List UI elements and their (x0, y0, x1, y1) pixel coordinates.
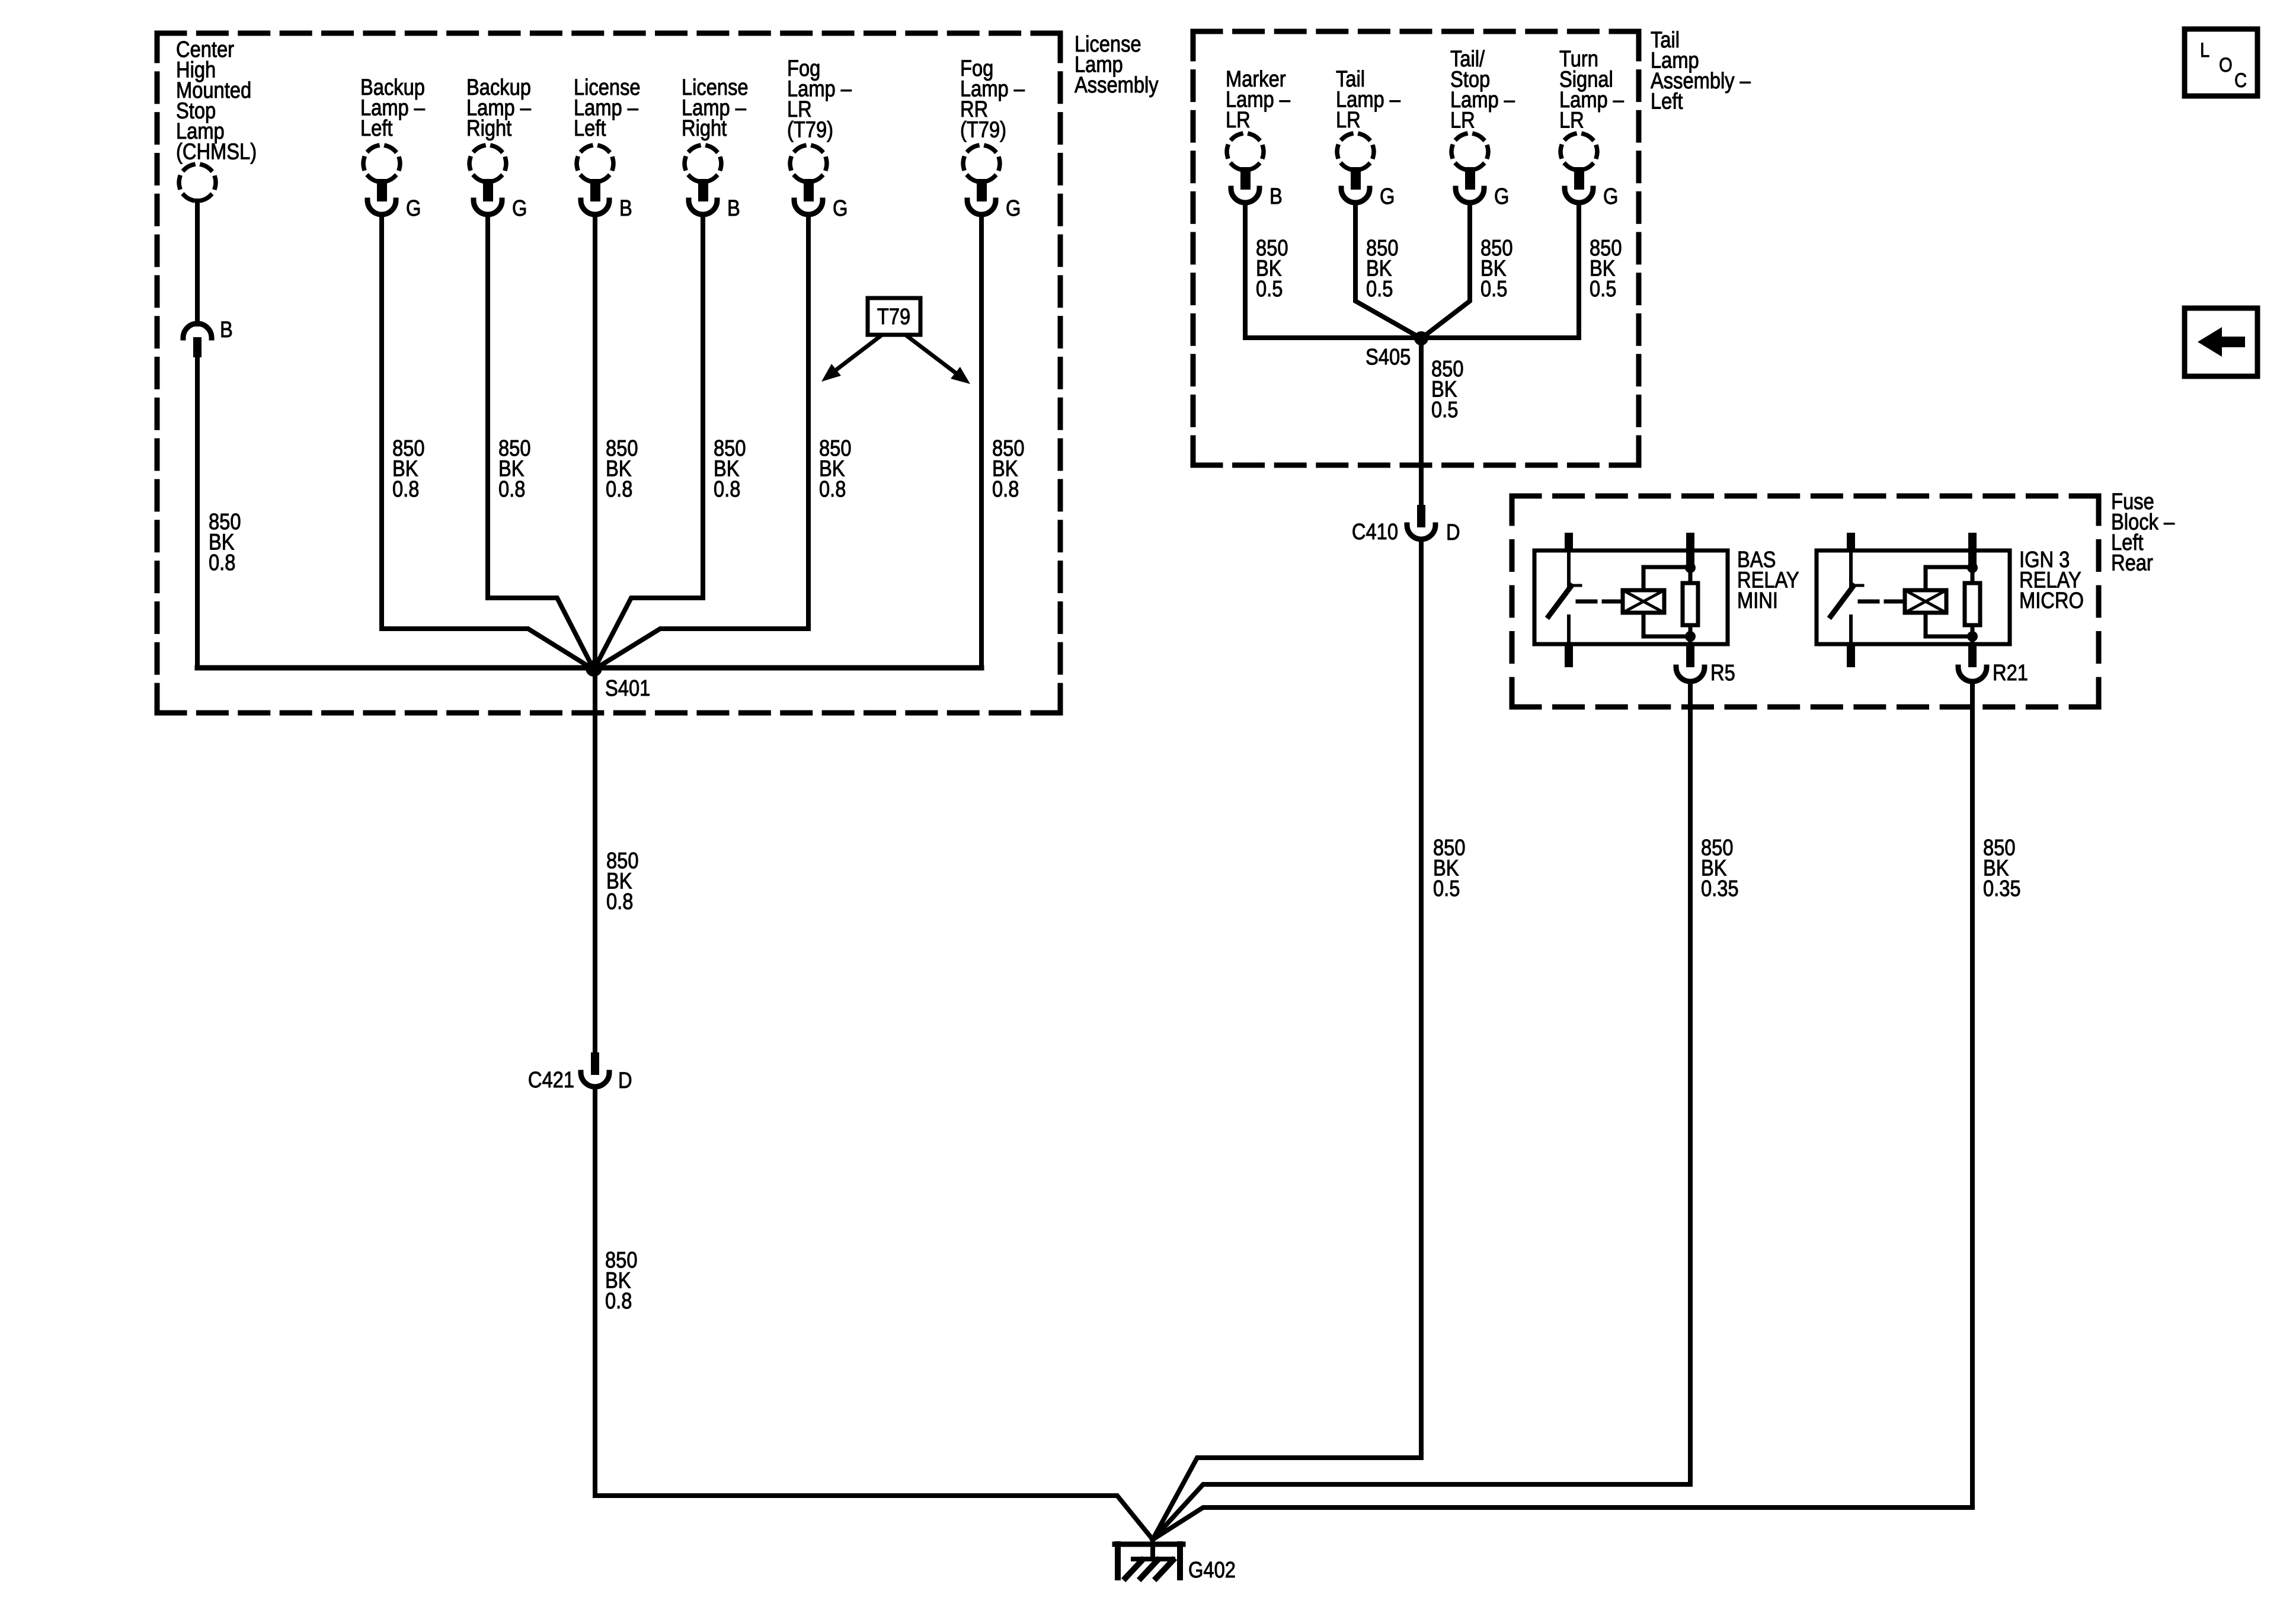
Tail Lamp Assembly dashed box (1193, 31, 1639, 465)
svg-text:B: B (1269, 184, 1283, 209)
svg-text:O: O (2219, 53, 2233, 76)
BAS RELAY MINI resistor (1683, 567, 1698, 644)
BAS RELAY MINI bottom-right pin (1686, 644, 1694, 667)
ground G402 symbol (1115, 1539, 1183, 1578)
IGN 3 RELAY MICRO actuator dashed link (1860, 600, 1905, 604)
svg-text:S401: S401 (605, 676, 650, 701)
svg-text:G: G (512, 196, 527, 221)
svg-text:D: D (618, 1068, 632, 1093)
svg-text:B: B (619, 196, 632, 221)
svg-text:S405: S405 (1366, 344, 1411, 370)
lamp Fog Lamp - RR (T79) (963, 145, 1000, 215)
BAS RELAY MINI actuator dashed link (1578, 600, 1623, 604)
svg-text:G: G (833, 196, 848, 221)
T79 reference box (868, 298, 920, 335)
wire Fog Lamp RR drop (979, 216, 984, 668)
back-arrow box (2185, 308, 2257, 376)
lamp Backup Lamp - Left (363, 145, 400, 215)
connector R5 cup (1676, 667, 1705, 681)
svg-text:G402: G402 (1188, 1557, 1236, 1583)
svg-text:C: C (2234, 69, 2247, 92)
BAS RELAY MINI coil (1623, 590, 1664, 613)
svg-text:T79: T79 (877, 304, 910, 329)
lamp License Lamp - Right (685, 145, 721, 215)
svg-text:R5: R5 (1710, 660, 1735, 686)
IGN 3 RELAY MICRO junction dot upper (1967, 562, 1978, 573)
Fuse Block dashed box (1512, 496, 2099, 707)
IGN 3 RELAY MICRO resistor (1965, 567, 1980, 644)
lamp License Lamp - Left (577, 145, 613, 215)
wire Backup Lamp Left to S401 (382, 216, 594, 670)
lamp Backup Lamp - Right (469, 145, 506, 215)
splice S405 (1414, 331, 1428, 345)
IGN 3 RELAY MICRO top-right pin (1968, 533, 1977, 569)
wire C421 to G402 (595, 1087, 1153, 1539)
svg-text:C410: C410 (1352, 519, 1398, 545)
lamp Tail/Stop Lamp - LR (1451, 133, 1488, 203)
relay IGN 3 RELAY MICRO box (1817, 550, 2010, 644)
wire Tail Lamp to S405 (1355, 204, 1421, 338)
lamp CHMSL (179, 164, 216, 201)
BAS RELAY MINI coil bottom wire (1643, 613, 1690, 636)
BAS RELAY MINI coil top wire (1643, 567, 1690, 590)
BAS RELAY MINI top-left pin (1565, 533, 1573, 552)
IGN 3 RELAY MICRO junction dot lower (1967, 631, 1978, 642)
wire R21 to G402 (1153, 681, 1972, 1539)
svg-text:B: B (727, 196, 740, 221)
wire S401 to C421 (593, 668, 597, 1054)
svg-text:G: G (1603, 184, 1618, 209)
IGN 3 RELAY MICRO bottom-right pin (1968, 644, 1977, 667)
wire Marker Lamp to S405 (1245, 204, 1421, 338)
svg-text:R21: R21 (1993, 660, 2028, 686)
lamp Turn Signal Lamp - LR (1560, 133, 1597, 203)
splice S401 (586, 660, 602, 677)
IGN 3 RELAY MICRO coil (1905, 590, 1946, 613)
wire R5 to G402 (1153, 681, 1690, 1539)
svg-text:C421: C421 (528, 1067, 574, 1093)
connector R21 cup (1958, 667, 1987, 681)
BAS RELAY MINI switch contact (1549, 550, 1581, 644)
IGN 3 RELAY MICRO bottom-left pin (1847, 644, 1855, 667)
IGN 3 RELAY MICRO switch contact (1831, 550, 1863, 644)
connector C421 (581, 1052, 609, 1087)
wire License Lamp Right to S401 (594, 216, 703, 670)
License Lamp Assembly dashed box (157, 33, 1060, 713)
wire Turn Signal Lamp to S405 (1421, 204, 1579, 338)
wire License Lamp Left to S401 (593, 216, 597, 670)
T79 arrow left (821, 335, 881, 382)
wire CHMSL to connector B (195, 201, 200, 324)
IGN 3 RELAY MICRO coil bottom wire (1926, 613, 1972, 636)
wire Fog Lamp LR to S401 (594, 216, 808, 670)
wire CHMSL down to S401 bus (195, 356, 200, 668)
BAS RELAY MINI junction dot upper (1685, 562, 1696, 573)
BAS RELAY MINI bottom-left pin (1565, 644, 1573, 667)
lamp Fog Lamp - LR (T79) (790, 145, 827, 215)
BAS RELAY MINI top-right pin (1686, 533, 1694, 569)
lamp Tail Lamp - LR (1337, 133, 1374, 203)
IGN 3 RELAY MICRO top-left pin (1847, 533, 1855, 552)
LOC reference box (2185, 29, 2257, 96)
connector B of CHMSL (183, 324, 212, 357)
svg-text:L: L (2200, 39, 2209, 62)
lamp Marker Lamp - LR (1227, 133, 1264, 203)
wire S401 horizontal bus (197, 665, 981, 671)
wire S405 to C410 (1419, 338, 1424, 506)
svg-text:B: B (220, 317, 233, 343)
wire Tail/Stop Lamp to S405 (1421, 204, 1470, 338)
svg-text:G: G (1494, 184, 1509, 209)
svg-text:G: G (1006, 196, 1021, 221)
connector C410 (1407, 505, 1435, 539)
IGN 3 RELAY MICRO coil top wire (1926, 567, 1972, 590)
wire C410 to G402 (1153, 539, 1421, 1539)
relay BAS RELAY MINI box (1534, 550, 1728, 644)
wire Backup Lamp Right to S401 (488, 216, 594, 670)
BAS RELAY MINI junction dot lower (1685, 631, 1696, 642)
svg-text:G: G (406, 196, 421, 221)
T79 arrow right (906, 335, 970, 384)
svg-text:D: D (1446, 520, 1460, 545)
svg-text:G: G (1380, 184, 1395, 209)
